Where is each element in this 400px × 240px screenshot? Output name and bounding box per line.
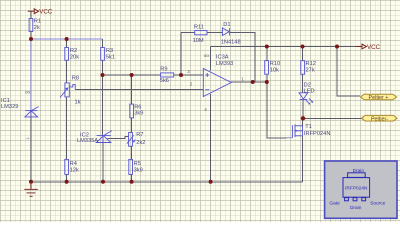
potentiometer R7 bbox=[127, 133, 135, 147]
svg-text:10k: 10k bbox=[270, 67, 279, 73]
wire bbox=[30, 117, 32, 182]
svg-text:R6: R6 bbox=[134, 104, 141, 110]
svg-text:3k9: 3k9 bbox=[134, 167, 143, 173]
svg-text:IRFP024N: IRFP024N bbox=[304, 131, 331, 137]
wire bbox=[131, 118, 133, 133]
junction bbox=[265, 45, 269, 49]
wire bbox=[102, 39, 104, 48]
junction bbox=[301, 116, 305, 120]
wire peltier minus bbox=[303, 117, 362, 119]
svg-text:R7: R7 bbox=[136, 132, 143, 138]
power port VCC right bbox=[356, 44, 381, 51]
junction bbox=[65, 37, 69, 41]
svg-text:-+: -+ bbox=[25, 136, 30, 141]
wire VCC rail bbox=[210, 46, 362, 48]
svg-text:Drain: Drain bbox=[350, 205, 362, 211]
resistor R12 bbox=[301, 61, 305, 74]
svg-text:1N4148: 1N4148 bbox=[221, 39, 241, 45]
wire bbox=[131, 75, 133, 104]
wire bbox=[31, 38, 103, 40]
svg-text:VCC: VCC bbox=[367, 44, 381, 51]
wire bbox=[102, 143, 104, 182]
wire bbox=[66, 60, 68, 83]
wire bbox=[30, 32, 32, 40]
port Peltier + bbox=[361, 94, 397, 101]
resistor R2 bbox=[65, 48, 69, 61]
svg-text:VCC: VCC bbox=[39, 8, 53, 15]
wire to gate bbox=[267, 82, 287, 138]
resistor R3 bbox=[101, 48, 105, 61]
junction bbox=[179, 73, 183, 77]
svg-text:IRFP024N: IRFP024N bbox=[345, 186, 368, 192]
svg-text:R8: R8 bbox=[72, 75, 79, 81]
resistor R1 bbox=[29, 19, 33, 32]
svg-text:LM393: LM393 bbox=[216, 61, 233, 67]
svg-text:3: 3 bbox=[187, 69, 190, 74]
diode D1 1N4148 bbox=[222, 28, 229, 36]
wire opamp V+ pin8 bbox=[209, 47, 211, 71]
resistor R10 bbox=[265, 61, 269, 74]
svg-text:oo: oo bbox=[25, 89, 31, 94]
wire bbox=[230, 33, 255, 83]
wire output bbox=[231, 81, 267, 83]
junction bbox=[29, 37, 33, 41]
wire bbox=[181, 32, 195, 34]
svg-text:LM335A: LM335A bbox=[77, 138, 98, 144]
svg-text:3k9: 3k9 bbox=[134, 111, 143, 117]
svg-text:R10: R10 bbox=[270, 61, 280, 67]
wire feedback vertical bbox=[180, 33, 182, 76]
wire bbox=[30, 39, 32, 110]
wire bbox=[102, 60, 104, 75]
svg-text:12k: 12k bbox=[70, 167, 79, 173]
power port VCC left bbox=[28, 8, 53, 15]
svg-text:27k: 27k bbox=[306, 67, 315, 73]
svg-text:T1: T1 bbox=[305, 124, 312, 130]
svg-text:1k: 1k bbox=[75, 99, 81, 105]
svg-text:R11: R11 bbox=[194, 25, 204, 31]
junction bbox=[209, 180, 213, 184]
svg-text:Source: Source bbox=[370, 200, 386, 206]
wire source to ground rail bbox=[302, 136, 304, 182]
wire bbox=[102, 75, 104, 136]
ground symbol bbox=[24, 182, 38, 197]
wire bbox=[66, 175, 68, 182]
svg-text:Peltier +: Peltier + bbox=[369, 95, 389, 101]
svg-text:Peltier-: Peltier- bbox=[371, 116, 388, 122]
junction bbox=[130, 73, 134, 77]
svg-text:5k1: 5k1 bbox=[106, 54, 115, 60]
wire bbox=[302, 47, 304, 62]
temp sensor IC2 LM335A bbox=[96, 131, 112, 143]
resistor R9 horizontal bbox=[161, 73, 174, 77]
wire bbox=[302, 74, 304, 93]
svg-text:R12: R12 bbox=[306, 61, 316, 67]
junction bbox=[251, 80, 255, 84]
svg-text:R1: R1 bbox=[34, 19, 41, 25]
wire bbox=[131, 146, 133, 159]
wire bbox=[266, 74, 268, 82]
wire drain bbox=[302, 118, 304, 126]
svg-text:5k6: 5k6 bbox=[160, 78, 169, 84]
svg-text:4: 4 bbox=[204, 107, 207, 112]
junction bbox=[130, 180, 134, 184]
svg-text:10M: 10M bbox=[193, 38, 204, 44]
junction bbox=[335, 45, 339, 49]
svg-text:R2: R2 bbox=[70, 48, 77, 54]
wire bbox=[66, 97, 68, 159]
wire bbox=[131, 175, 133, 182]
svg-text:LED: LED bbox=[304, 88, 315, 94]
wire bbox=[302, 100, 304, 119]
svg-text:2: 2 bbox=[190, 82, 193, 87]
resistor R4 bbox=[65, 159, 69, 174]
wire bbox=[66, 39, 68, 48]
svg-text:D1: D1 bbox=[223, 22, 230, 28]
wire bbox=[30, 11, 32, 18]
svg-text:R3: R3 bbox=[106, 48, 113, 54]
svg-text:IC3A: IC3A bbox=[216, 54, 229, 60]
svg-text:R9: R9 bbox=[160, 67, 167, 73]
junction bbox=[265, 80, 269, 84]
potentiometer R8 bbox=[60, 83, 75, 98]
svg-text:1: 1 bbox=[241, 77, 244, 82]
op-amp comparator IC3A LM393 bbox=[203, 69, 231, 97]
LED D2 bbox=[299, 93, 313, 105]
junction bbox=[29, 180, 33, 184]
junction bbox=[301, 45, 305, 49]
svg-text:20k: 20k bbox=[70, 54, 79, 60]
svg-text:2k2: 2k2 bbox=[136, 140, 145, 146]
resistor R6 bbox=[130, 104, 134, 118]
svg-text:Gate: Gate bbox=[329, 200, 340, 206]
package inset box IRFP024N bbox=[325, 161, 397, 218]
zener reference IC1 LM329 bbox=[25, 107, 39, 117]
resistor R11 horizontal bbox=[195, 31, 207, 35]
resistor R5 bbox=[129, 159, 133, 174]
MOSFET T1 IRFP024N bbox=[287, 124, 303, 138]
wire peltier plus branch bbox=[337, 47, 360, 97]
junction bbox=[65, 180, 69, 184]
svg-text:LM329: LM329 bbox=[1, 104, 18, 110]
junction bbox=[101, 73, 105, 77]
svg-text:oo: oo bbox=[204, 53, 210, 58]
svg-text:2k: 2k bbox=[34, 25, 40, 31]
svg-text:R4: R4 bbox=[70, 161, 77, 167]
wire bbox=[174, 74, 204, 76]
wire bbox=[103, 74, 161, 76]
wire ground rail bbox=[31, 181, 303, 183]
svg-text:R5: R5 bbox=[134, 161, 141, 167]
junction bbox=[101, 180, 105, 184]
wire bbox=[266, 47, 268, 62]
port Peltier - bbox=[362, 115, 398, 122]
wire bbox=[207, 32, 222, 34]
wire LM335 adj to R7 wiper bbox=[108, 136, 129, 138]
wire bbox=[75, 89, 203, 91]
wire opamp V- pin4 bbox=[210, 94, 212, 182]
